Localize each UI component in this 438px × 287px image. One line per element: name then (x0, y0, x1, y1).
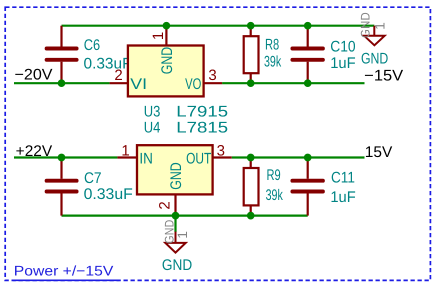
node junction C6 / -20V input (58, 79, 66, 87)
svg-text:39k: 39k (264, 54, 281, 71)
node junction U3 GND pin / top rail (163, 22, 171, 30)
node junction R8 top / top rail (247, 22, 255, 30)
body U4 (137, 145, 213, 194)
svg-text:C7: C7 (84, 170, 102, 187)
svg-text:L7815: L7815 (176, 120, 228, 137)
svg-text:1uF: 1uF (330, 189, 355, 206)
svg-text:GND: GND (159, 47, 176, 74)
svg-text:R8: R8 (265, 36, 279, 53)
svg-text:C6: C6 (84, 37, 100, 54)
wire input net -20V (14, 82, 110, 84)
svg-text:Power +/−15V: Power +/−15V (14, 263, 114, 279)
pin 2 VI (110, 82, 128, 84)
svg-text:U3: U3 (144, 103, 161, 120)
wire output net 15V (232, 156, 365, 158)
regulator U3 L7915 (110, 26, 223, 97)
wire output net -15V (222, 82, 364, 84)
pin 1 IN (117, 156, 136, 158)
svg-text:3: 3 (208, 67, 216, 84)
pin stub (175, 232, 177, 243)
node junction C7 / +22V input (58, 154, 66, 162)
svg-text:GND: GND (358, 12, 372, 38)
ground triangle (165, 243, 185, 253)
node junction U4 GND pin / ground return (172, 212, 180, 220)
ground triangle (364, 36, 384, 46)
svg-text:U4: U4 (144, 120, 161, 137)
svg-text:1uF: 1uF (330, 55, 355, 72)
svg-text:3: 3 (217, 143, 225, 160)
pin 2 GND (174, 194, 176, 216)
svg-text:1: 1 (150, 32, 167, 40)
svg-text:2: 2 (156, 201, 173, 209)
svg-text:0.33uF: 0.33uF (84, 186, 133, 203)
svg-text:1: 1 (372, 22, 387, 30)
node junction C10 bottom / -15V net (304, 79, 312, 87)
svg-text:2: 2 (114, 67, 122, 84)
svg-text:VI: VI (130, 76, 147, 93)
pin 1 GND (165, 26, 167, 45)
title underline (13, 279, 120, 281)
svg-text:0.33uF: 0.33uF (84, 55, 132, 72)
capacitor C10 1uF (292, 26, 355, 83)
node junction C11 top / 15V net (304, 154, 312, 162)
resistor R8 39k (244, 26, 282, 83)
svg-text:C10: C10 (330, 39, 355, 56)
svg-text:OUT: OUT (186, 150, 212, 167)
capacitor C11 1uF (292, 158, 355, 216)
svg-text:C11: C11 (331, 169, 355, 186)
wire GND rail (top) (62, 25, 375, 27)
node junction R9 bottom / ground return (247, 212, 255, 220)
svg-text:GND: GND (162, 257, 192, 274)
svg-text:1: 1 (121, 143, 129, 160)
svg-text:L7915: L7915 (176, 103, 228, 120)
svg-text:GND: GND (168, 162, 185, 189)
svg-text:R9: R9 (267, 167, 281, 184)
node junction C10 top / top rail (304, 22, 312, 30)
ground symbol (bottom) (162, 219, 192, 274)
wire input net +22V (14, 156, 117, 158)
svg-text:+22V: +22V (16, 143, 53, 160)
pin stub (373, 26, 375, 36)
svg-text:IN: IN (139, 150, 153, 167)
svg-text:−20V: −20V (15, 67, 54, 84)
capacitor C7 0.33uF (47, 158, 133, 216)
wire ground return (bottom) (62, 215, 308, 217)
pin 3 VO (204, 82, 222, 84)
regulator U4 L7815 (117, 143, 231, 216)
node junction R8 bottom / -15V net (247, 79, 255, 87)
node junction R9 top / 15V net (247, 154, 255, 162)
ground symbol (top right) (358, 12, 388, 68)
svg-text:VO: VO (185, 76, 201, 93)
svg-text:15V: 15V (365, 144, 393, 161)
pin 3 OUT (213, 156, 232, 158)
svg-text:GND: GND (361, 51, 388, 68)
capacitor C6 0.33uF (47, 26, 132, 83)
svg-text:1: 1 (175, 231, 190, 239)
body U3 (128, 46, 204, 97)
resistor R9 39k (244, 158, 283, 216)
svg-text:39k: 39k (266, 187, 283, 204)
wire GND stub (bottom) (174, 216, 176, 232)
svg-text:−15V: −15V (364, 67, 404, 84)
